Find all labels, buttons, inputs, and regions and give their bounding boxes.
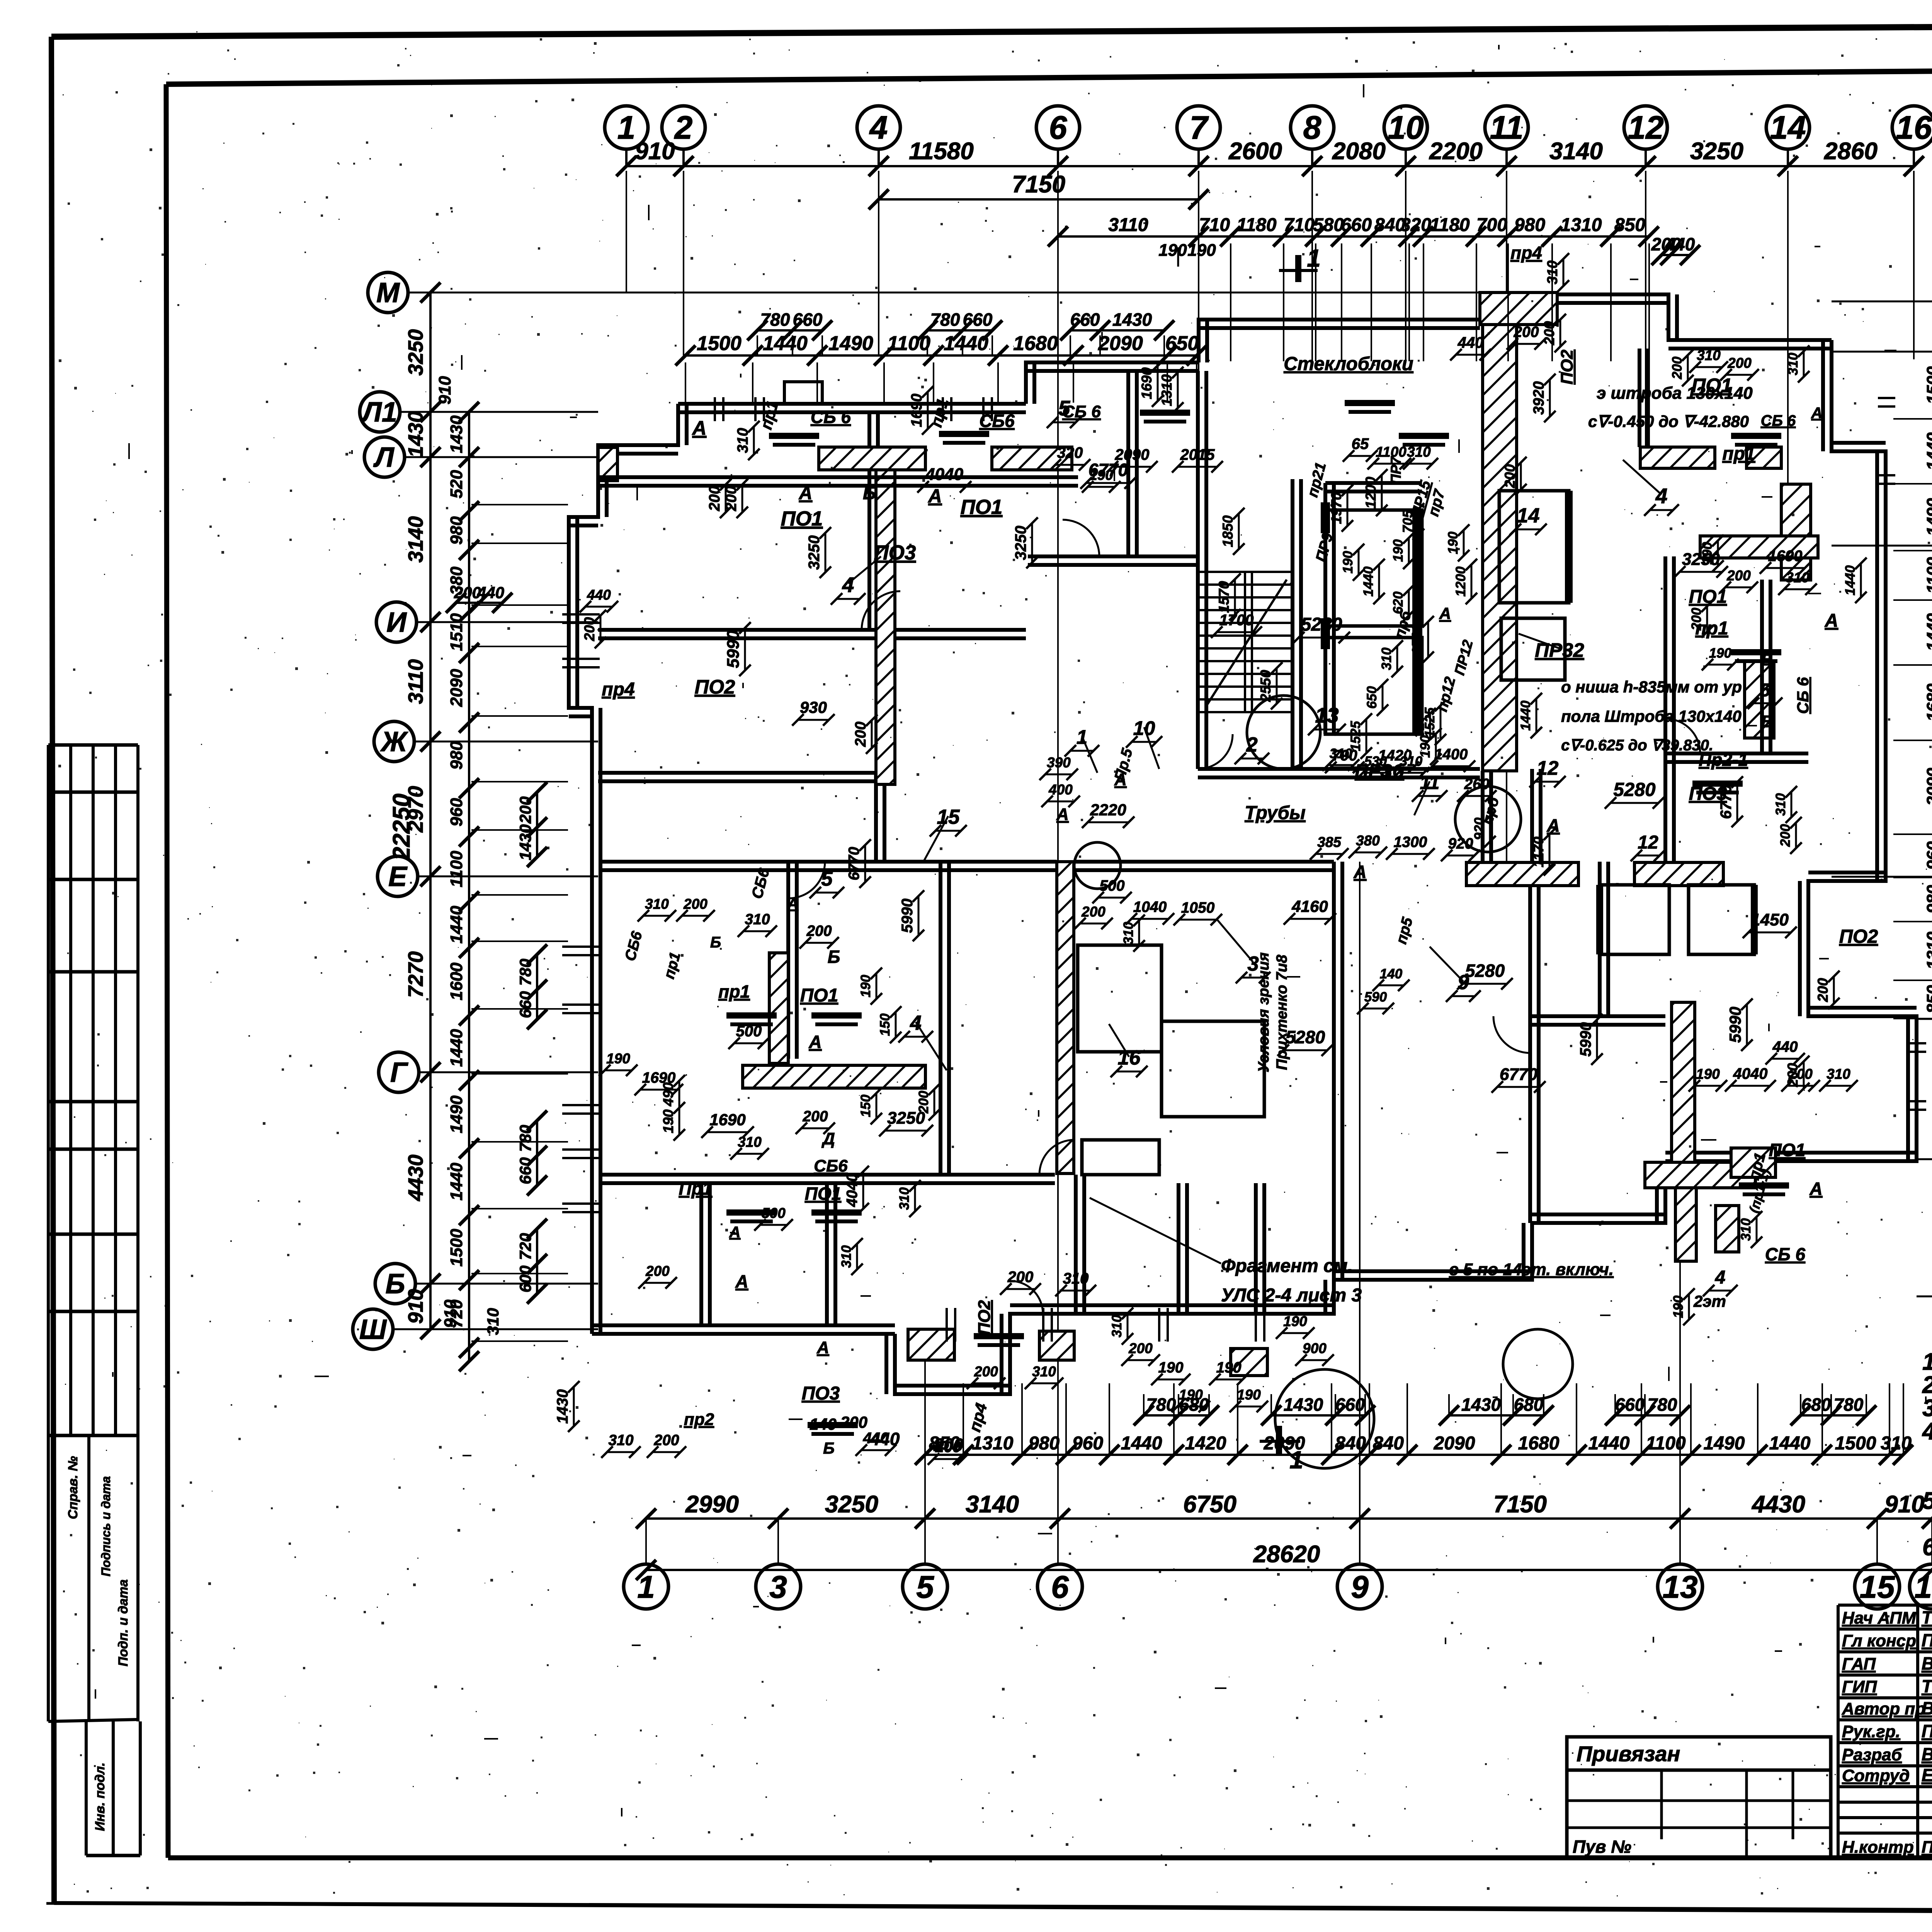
svg-text:СБ 6: СБ 6	[1794, 677, 1812, 714]
outer border	[51, 23, 1932, 37]
interior wall	[1663, 556, 1667, 881]
outer wall: bottom-left wing	[592, 1332, 895, 1336]
axis circle 10 (top)	[1384, 106, 1427, 149]
inner frame	[166, 66, 1932, 84]
bottom total chain 28620	[646, 1569, 1932, 1571]
detail circle	[1455, 786, 1521, 852]
svg-text:1300: 1300	[1394, 834, 1427, 850]
svg-text:6770: 6770	[846, 847, 862, 880]
svg-text:Разраб: Разраб	[1842, 1745, 1903, 1764]
svg-text:7270: 7270	[404, 951, 427, 998]
svg-text:1500: 1500	[1409, 623, 1425, 655]
svg-text:с 5 по 14эт. включ.: с 5 по 14эт. включ.	[1449, 1260, 1614, 1279]
svg-text:4430: 4430	[404, 1155, 427, 1201]
hatched pier	[598, 447, 617, 481]
svg-text:А: А	[1811, 405, 1823, 422]
left wing top sub-chain	[685, 354, 1197, 357]
outer wall: central top	[1026, 362, 1199, 404]
left paired dims	[536, 792, 538, 857]
axis circle М (left)	[368, 272, 408, 313]
svg-text:2090: 2090	[1434, 1433, 1475, 1454]
svg-text:1680: 1680	[1518, 1433, 1560, 1454]
svg-text:А: А	[1546, 815, 1560, 835]
section mark bottom	[1276, 1426, 1282, 1456]
svg-text:с∇-0.625 до ∇39.830.: с∇-0.625 до ∇39.830.	[1561, 737, 1713, 754]
svg-text:Плистинский: Плистинский	[1922, 1721, 1932, 1741]
svg-text:пр4: пр4	[602, 679, 634, 700]
svg-text:320: 320	[1057, 444, 1083, 461]
svg-text:4: 4	[1715, 1267, 1726, 1288]
svg-text:1440: 1440	[1923, 432, 1932, 470]
axis circle 8 (top)	[1291, 106, 1334, 149]
svg-text:Вигдергауз: Вигдергауз	[1922, 1744, 1932, 1764]
top dimension chain main	[626, 165, 1914, 167]
svg-text:6770: 6770	[1500, 1065, 1537, 1084]
axis circle Ш (left)	[353, 1309, 393, 1349]
hatched wall	[1057, 862, 1074, 1173]
svg-text:А: А	[1056, 805, 1069, 824]
svg-text:1690: 1690	[709, 1111, 745, 1129]
svg-text:310: 310	[484, 1308, 502, 1335]
svg-text:1170: 1170	[1531, 837, 1546, 867]
svg-text:1430: 1430	[1112, 310, 1152, 330]
svg-text:3250: 3250	[1690, 138, 1743, 165]
svg-text:с∇-0.450 до ∇-42.880: с∇-0.450 до ∇-42.880	[1588, 412, 1749, 430]
svg-text:5280: 5280	[1613, 779, 1655, 800]
svg-text:А: А	[1809, 1179, 1822, 1199]
svg-text:ПО1: ПО1	[1769, 1140, 1805, 1160]
svg-text:Инв. подл.: Инв. подл.	[93, 1762, 107, 1831]
interior wall	[786, 862, 790, 1059]
svg-text:А: А	[928, 486, 942, 507]
axis circle 14 (top)	[1766, 106, 1810, 149]
svg-text:1440: 1440	[1361, 566, 1376, 597]
hatched wall	[769, 953, 788, 1063]
svg-text:2090: 2090	[1923, 768, 1932, 806]
svg-text:А: А	[816, 1338, 829, 1357]
svg-text:10: 10	[1388, 109, 1423, 146]
detail circle	[1275, 1369, 1374, 1468]
svg-text:3: 3	[769, 1570, 787, 1605]
svg-text:1180: 1180	[1236, 215, 1277, 235]
svg-text:3250: 3250	[806, 536, 823, 570]
additional interior partitions	[699, 1183, 703, 1325]
hatched wall	[1634, 862, 1723, 886]
svg-text:Привязан: Привязан	[1577, 1742, 1680, 1766]
room	[1501, 618, 1565, 680]
door arcs	[862, 591, 900, 630]
svg-text:1100: 1100	[447, 850, 466, 887]
section mark top	[1295, 255, 1301, 282]
hatched lintel wall	[1747, 447, 1781, 468]
svg-text:660: 660	[1335, 1395, 1365, 1415]
svg-text:650: 650	[1165, 332, 1199, 355]
detail circle	[1503, 1329, 1573, 1399]
svg-text:660: 660	[963, 310, 993, 330]
svg-text:4.: 4.	[1922, 1418, 1932, 1445]
svg-text:1600: 1600	[447, 963, 466, 1000]
svg-text:Подпись и дата: Подпись и дата	[99, 1476, 113, 1576]
svg-text:ПО2: ПО2	[1558, 349, 1577, 384]
axis circle 5 (bottom)	[903, 1564, 947, 1609]
svg-text:2015: 2015	[1180, 446, 1215, 463]
svg-text:5990: 5990	[724, 630, 743, 668]
svg-text:1490: 1490	[1704, 1433, 1745, 1454]
top chain small dims	[1058, 235, 1649, 238]
interior wall	[1126, 371, 1130, 556]
svg-text:Д: Д	[821, 1129, 835, 1148]
axis circle Б (left)	[375, 1264, 415, 1304]
svg-text:14: 14	[1770, 109, 1806, 146]
hatched wall band	[743, 1065, 925, 1088]
svg-text:1680: 1680	[1013, 332, 1058, 355]
axis circle 2 (top)	[662, 106, 705, 149]
svg-text:ПО2: ПО2	[695, 676, 735, 698]
svg-text:13: 13	[1662, 1570, 1697, 1605]
svg-text:11: 11	[1490, 109, 1523, 146]
svg-text:1440: 1440	[1518, 701, 1533, 731]
svg-text:1490: 1490	[1923, 498, 1932, 536]
svg-text:710: 710	[1284, 215, 1315, 235]
svg-text:28620: 28620	[1253, 1541, 1320, 1568]
svg-text:1500: 1500	[697, 332, 742, 355]
room	[1600, 885, 1669, 954]
svg-text:780: 780	[1648, 1395, 1677, 1415]
svg-text:780: 780	[760, 310, 790, 330]
scan streaks	[1660, 1081, 1667, 1083]
hatched lintel wall	[1640, 447, 1715, 468]
svg-text:4: 4	[869, 109, 888, 146]
interior wall	[1074, 1175, 1078, 1314]
svg-text:1420: 1420	[1185, 1433, 1226, 1454]
svg-text:3110: 3110	[404, 659, 427, 704]
outer wall: right side stepped	[1665, 340, 1917, 1161]
svg-text:А: А	[1114, 770, 1127, 789]
bottom paired dims	[1144, 1414, 1209, 1417]
svg-text:Л1: Л1	[361, 397, 397, 428]
axis circle 1 (top)	[605, 106, 648, 149]
svg-text:1450: 1450	[1751, 910, 1789, 929]
svg-text:1100: 1100	[1376, 444, 1406, 460]
interior wall	[1530, 769, 1534, 862]
svg-text:660: 660	[1070, 310, 1100, 330]
svg-text:ПО1: ПО1	[1692, 374, 1732, 396]
hatched pier	[908, 1329, 954, 1360]
svg-text:1490: 1490	[447, 1095, 466, 1133]
svg-text:1490: 1490	[828, 332, 873, 355]
svg-text:2080: 2080	[1332, 138, 1386, 165]
stair flight	[1198, 571, 1293, 573]
svg-text:И: И	[386, 607, 407, 638]
svg-text:А: А	[1439, 604, 1451, 622]
svg-text:4430: 4430	[1751, 1491, 1805, 1518]
svg-text:200: 200	[516, 796, 534, 824]
svg-text:660: 660	[516, 991, 534, 1018]
axis circle Е (left)	[378, 856, 418, 896]
svg-text:пола Штроба 130х140: пола Штроба 130х140	[1561, 707, 1742, 725]
hatched wall	[1745, 661, 1774, 738]
svg-text:910: 910	[404, 1289, 427, 1324]
hatched pier	[1716, 1206, 1739, 1252]
svg-text:Н.контр: Н.контр	[1842, 1838, 1914, 1857]
interior wall	[1332, 862, 1336, 1280]
axis circle Л (left)	[364, 437, 405, 477]
svg-text:1.: 1.	[1922, 1349, 1932, 1375]
extension lines top chains	[1198, 243, 1199, 361]
svg-text:1050: 1050	[1181, 900, 1215, 916]
svg-text:Рук.гр.: Рук.гр.	[1842, 1722, 1900, 1741]
svg-text:Б: Б	[386, 1269, 405, 1299]
room	[1162, 1021, 1264, 1117]
svg-text:6750: 6750	[1183, 1491, 1236, 1518]
svg-text:СБ 6: СБ 6	[811, 407, 851, 427]
svg-text:СБ6: СБ6	[814, 1156, 848, 1175]
svg-text:1440: 1440	[1843, 565, 1858, 595]
outer wall: core top right	[1517, 294, 1832, 340]
interior wall	[867, 412, 871, 630]
bottom main chain	[646, 1517, 1932, 1520]
left axis dim chain	[429, 293, 432, 1329]
outer wall: stair block top	[1199, 320, 1480, 362]
svg-text:ПО2: ПО2	[975, 1300, 994, 1335]
svg-text:А: А	[1825, 611, 1838, 631]
svg-text:850: 850	[1923, 985, 1932, 1014]
svg-text:980: 980	[1514, 215, 1545, 235]
svg-text:960: 960	[1072, 1433, 1103, 1454]
svg-text:Автор пр: Автор пр	[1842, 1699, 1925, 1718]
svg-text:1690: 1690	[642, 1070, 676, 1086]
svg-text:2860: 2860	[1824, 138, 1878, 165]
svg-text:440: 440	[477, 583, 504, 602]
axis circle 13 (bottom)	[1658, 1564, 1702, 1609]
svg-text:310: 310	[1063, 1270, 1089, 1287]
extension lines left chain	[471, 411, 568, 413]
svg-text:Ж: Ж	[380, 726, 408, 757]
svg-text:1440: 1440	[944, 332, 988, 355]
svg-text:1510: 1510	[447, 613, 466, 651]
axis circle Л1 (left)	[360, 392, 400, 432]
svg-text:Стеклоблоки: Стеклоблоки	[1284, 354, 1413, 374]
hatched wall band	[1700, 536, 1818, 558]
svg-text:5280: 5280	[1286, 1027, 1325, 1047]
svg-text:ГИП: ГИП	[1842, 1677, 1878, 1696]
svg-text:840: 840	[1373, 1433, 1404, 1454]
svg-text:1200: 1200	[1453, 566, 1468, 597]
room	[1082, 1140, 1159, 1175]
window marks	[562, 613, 600, 616]
svg-text:980: 980	[1029, 1433, 1060, 1454]
interior wall	[1528, 862, 1532, 1223]
svg-text:5.: 5.	[1922, 1488, 1932, 1514]
svg-text:4040: 4040	[844, 1173, 861, 1207]
svg-text:190: 190	[1187, 241, 1216, 260]
bottom grid verticals	[645, 1519, 647, 1564]
svg-text:9: 9	[1351, 1570, 1369, 1605]
hatched wall	[1672, 1002, 1695, 1166]
detail circle	[1247, 696, 1320, 769]
svg-text:960: 960	[447, 798, 466, 827]
hatched wall	[1466, 862, 1578, 886]
left sub chain	[468, 412, 470, 1361]
svg-text:3110: 3110	[1108, 215, 1148, 235]
svg-text:4: 4	[842, 573, 854, 597]
svg-text:12: 12	[1628, 109, 1663, 146]
svg-text:980: 980	[447, 516, 466, 545]
svg-text:ПО1: ПО1	[781, 507, 823, 530]
extension lines bottom chains	[924, 1383, 926, 1454]
svg-text:Фрагмент см.: Фрагмент см.	[1221, 1256, 1353, 1276]
svg-text:22250: 22250	[388, 794, 415, 861]
wall bump	[784, 382, 822, 404]
hatched lintel wall	[992, 447, 1072, 470]
svg-text:1690: 1690	[908, 393, 925, 427]
axis circle 7 (top)	[1177, 106, 1220, 149]
svg-text:7: 7	[1190, 109, 1209, 146]
axis circle 15 (bottom)	[1855, 1564, 1900, 1609]
svg-text:4040: 4040	[925, 465, 963, 484]
detail circle	[1074, 842, 1121, 889]
svg-text:9: 9	[1458, 971, 1469, 994]
svg-text:УЛС 2-4 лист 3: УЛС 2-4 лист 3	[1221, 1285, 1362, 1306]
left stamp table	[47, 745, 50, 1435]
svg-text:3920: 3920	[1531, 381, 1547, 415]
svg-text:1690: 1690	[1139, 367, 1155, 399]
interior wall	[600, 860, 1057, 864]
svg-text:780: 780	[1834, 1395, 1864, 1415]
svg-text:А: А	[692, 417, 707, 439]
axis circle 4 (top)	[857, 106, 900, 149]
svg-text:Еншевская: Еншевская	[1922, 1765, 1932, 1785]
svg-text:СБ 6: СБ 6	[1765, 1244, 1806, 1264]
svg-text:Гл конср: Гл конср	[1842, 1631, 1916, 1650]
svg-text:680: 680	[1801, 1395, 1831, 1415]
svg-text:1970: 1970	[1328, 492, 1344, 524]
svg-text:4160: 4160	[1291, 897, 1328, 915]
hatched wall	[876, 470, 895, 784]
svg-text:Сотруд: Сотруд	[1842, 1766, 1910, 1785]
signature table	[1838, 1604, 1932, 1607]
svg-text:3250: 3250	[825, 1491, 878, 1518]
hatched wall	[1675, 1188, 1696, 1261]
svg-text:6: 6	[1051, 1570, 1069, 1605]
hatched core wall	[1483, 325, 1517, 771]
axis circle И (left)	[376, 602, 417, 642]
svg-text:ПО1: ПО1	[800, 985, 838, 1006]
axis circle 16 (top)	[1892, 106, 1932, 149]
svg-text:1700: 1700	[1219, 612, 1254, 629]
bottom sub chain	[925, 1454, 1903, 1456]
interior wall	[598, 475, 1026, 479]
svg-text:ГАП: ГАП	[1842, 1655, 1876, 1673]
svg-text:А: А	[808, 1032, 821, 1052]
svg-text:1690: 1690	[1768, 548, 1803, 565]
svg-text:3140: 3140	[1549, 138, 1603, 165]
svg-text:1430: 1430	[447, 415, 466, 453]
svg-text:520: 520	[447, 470, 466, 498]
svg-text:пр2: пр2	[684, 1410, 714, 1429]
svg-text:5: 5	[916, 1570, 934, 1605]
interior wall	[600, 1173, 1055, 1177]
svg-text:660: 660	[516, 1157, 534, 1184]
hatched core top	[1480, 293, 1557, 325]
svg-text:1440: 1440	[1588, 1433, 1630, 1454]
svg-text:8: 8	[1303, 109, 1321, 146]
svg-text:1440: 1440	[1121, 1433, 1162, 1454]
svg-text:Г: Г	[390, 1057, 408, 1088]
outer wall: top-left wing top	[678, 402, 1026, 406]
axis circle 11 (top)	[1485, 106, 1528, 149]
svg-text:3140: 3140	[966, 1491, 1019, 1518]
svg-text:910: 910	[435, 376, 454, 405]
axis circle 1 (bottom)	[624, 1564, 668, 1609]
svg-text:Вигдергауз: Вигдергауз	[1922, 1698, 1932, 1718]
svg-text:11580: 11580	[909, 138, 974, 165]
interior wall stair right	[1291, 479, 1294, 769]
elevator shaft	[1325, 510, 1422, 626]
svg-text:4: 4	[1655, 484, 1668, 508]
hatched pier	[1731, 1148, 1776, 1177]
svg-text:ПР7: ПР7	[1388, 456, 1404, 485]
svg-text:5280: 5280	[1465, 961, 1505, 981]
hatched pier	[1039, 1331, 1074, 1360]
svg-text:Толстинев: Толстинев	[1922, 1607, 1932, 1628]
svg-text:Ш: Ш	[359, 1314, 387, 1345]
svg-text:Б: Б	[828, 947, 840, 967]
svg-text:1500: 1500	[1835, 1433, 1876, 1454]
interior wall	[1028, 554, 1198, 558]
svg-text:580: 580	[1313, 215, 1344, 235]
svg-text:пр1: пр1	[718, 981, 750, 1002]
outer wall: bottom right stepped	[895, 1161, 1665, 1394]
svg-text:780: 780	[516, 959, 534, 986]
svg-text:2550: 2550	[1258, 670, 1274, 702]
svg-text:2: 2	[674, 109, 693, 146]
interior wall	[1481, 771, 1485, 862]
axis circle 9 (bottom)	[1337, 1564, 1382, 1609]
svg-text:1430: 1430	[404, 411, 427, 457]
svg-text:710: 710	[1199, 215, 1230, 235]
svg-text:Прихтенко 7и8: Прихтенко 7и8	[1274, 954, 1290, 1070]
svg-text:1850: 1850	[1220, 515, 1236, 547]
interior wall stair left	[1196, 371, 1200, 769]
svg-text:190: 190	[1158, 241, 1187, 260]
svg-text:5990: 5990	[1726, 1007, 1744, 1043]
svg-text:Тиморцев: Тиморцев	[1922, 1676, 1932, 1696]
svg-text:980: 980	[447, 741, 466, 770]
svg-text:1570: 1570	[1216, 581, 1232, 613]
svg-text:660: 660	[793, 310, 823, 330]
svg-text:о ниша h-835мм от ур: о ниша h-835мм от ур	[1561, 678, 1742, 696]
svg-text:А: А	[1353, 862, 1366, 882]
svg-text:2: 2	[1246, 733, 1257, 756]
svg-text:5990: 5990	[1577, 1022, 1594, 1057]
hatched lintel wall	[819, 447, 925, 470]
axis circle 6 (bottom)	[1037, 1564, 1082, 1609]
leader lines	[848, 556, 881, 583]
svg-text:660: 660	[1615, 1395, 1645, 1415]
svg-text:440: 440	[1665, 234, 1695, 254]
svg-text:910: 910	[441, 1299, 460, 1328]
axis circle 12 (top)	[1624, 106, 1667, 149]
svg-text:7150: 7150	[1493, 1491, 1547, 1518]
svg-text:1680: 1680	[1923, 684, 1932, 721]
svg-text:780: 780	[516, 1125, 534, 1152]
svg-text:Плистинский: Плистинский	[1922, 1838, 1932, 1857]
svg-text:1500: 1500	[447, 1229, 466, 1267]
svg-text:1: 1	[617, 109, 636, 146]
svg-text:1180: 1180	[1430, 215, 1470, 235]
svg-text:1040: 1040	[1133, 899, 1167, 915]
